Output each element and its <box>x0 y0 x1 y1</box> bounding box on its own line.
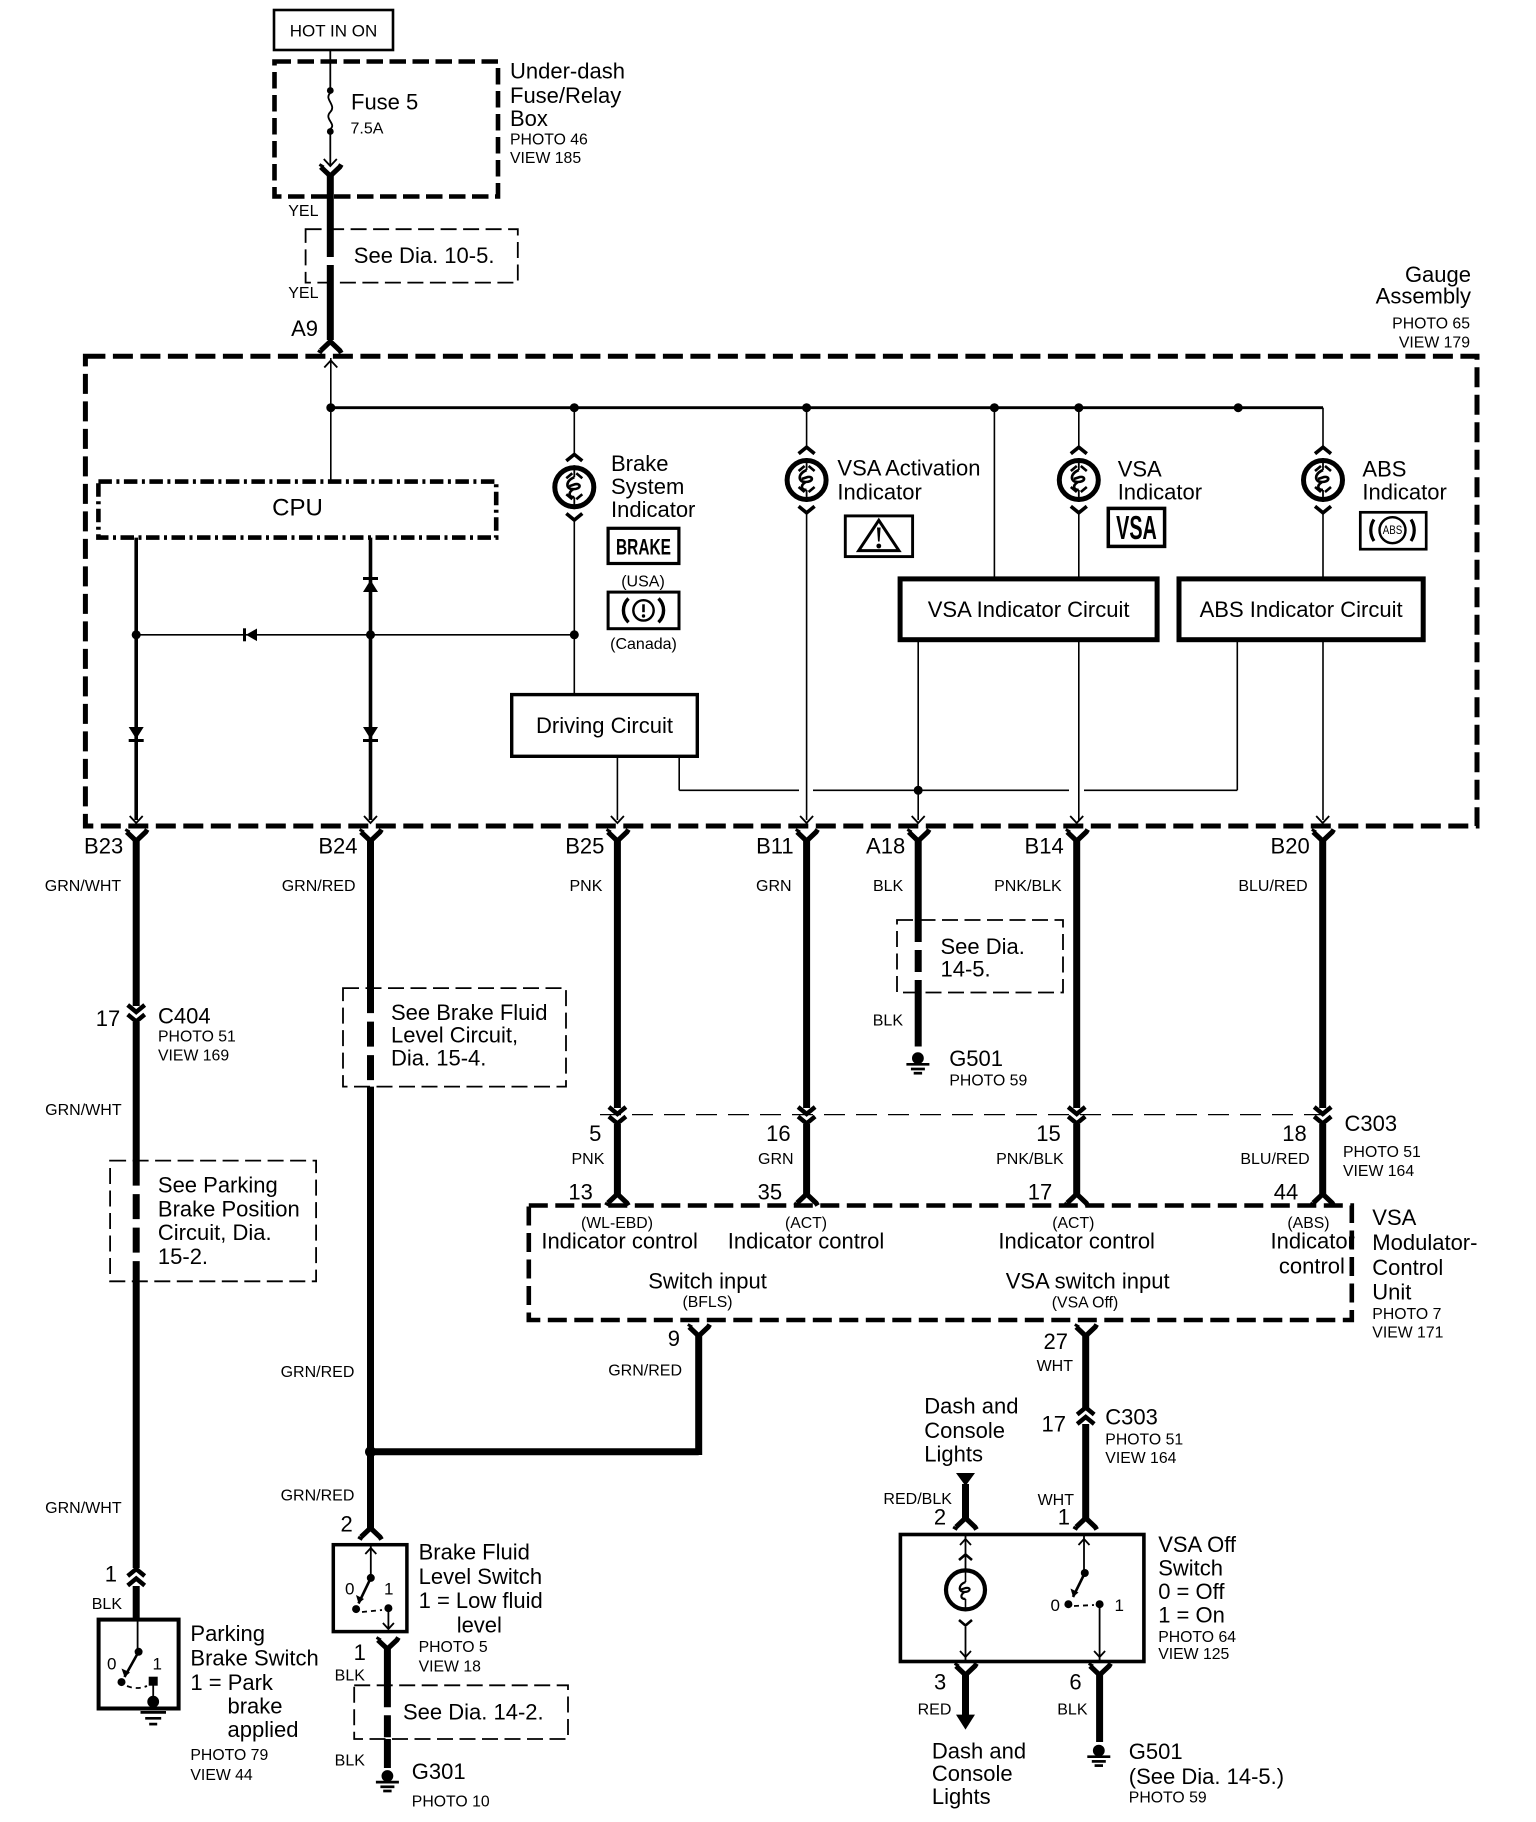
reference box See Parking Brake Position Circuit Dia. 15-2. <box>110 1161 316 1282</box>
connector A18 exit arrow <box>912 816 925 823</box>
power source label HOT IN ON <box>274 10 393 50</box>
label GRN/WHT (mid) <box>45 1102 122 1119</box>
under-dash fuse/relay box <box>275 62 499 197</box>
svg-text:(USA): (USA) <box>621 574 665 591</box>
lamp VSA Activation Indicator <box>787 447 826 513</box>
label Brake Fluid Level Switch <box>419 1539 543 1675</box>
svg-text:PNK/BLK: PNK/BLK <box>994 878 1062 895</box>
svg-text:Indicator: Indicator <box>611 497 695 522</box>
connector brake fluid switch pin 1 (output) <box>354 1638 399 1665</box>
svg-text:BRAKE: BRAKE <box>616 536 671 560</box>
svg-text:Dash and: Dash and <box>924 1393 1018 1418</box>
wire B25 PNK to C303 <box>614 841 621 1108</box>
connector B20 <box>1271 830 1334 859</box>
junction node A9/bus <box>326 403 335 412</box>
svg-text:B11: B11 <box>756 834 794 859</box>
icon ABS <box>1360 512 1426 549</box>
svg-text:Modulator-: Modulator- <box>1372 1230 1477 1255</box>
svg-text:PHOTO 65: PHOTO 65 <box>1392 316 1470 333</box>
label YEL (upper) <box>288 203 318 220</box>
wire B24 GRN/RED to reference box <box>367 841 374 988</box>
svg-text:1 = Park: 1 = Park <box>190 1670 274 1695</box>
svg-text:GRN/WHT: GRN/WHT <box>45 1500 122 1517</box>
label Gauge Assembly <box>1376 262 1471 352</box>
junction node bus/VSA indicator circuit <box>990 403 999 412</box>
svg-text:VIEW 18: VIEW 18 <box>419 1659 482 1676</box>
svg-text:PNK: PNK <box>571 1151 604 1168</box>
label wire colour GRN/RED (B24) <box>282 878 356 895</box>
connector B11 <box>756 830 818 859</box>
svg-text:Brake Position: Brake Position <box>158 1196 300 1221</box>
icon brake warning circle (Canada) <box>608 592 679 629</box>
svg-text:RED: RED <box>918 1702 952 1719</box>
svg-text:C303: C303 <box>1105 1405 1158 1430</box>
svg-text:Parking: Parking <box>190 1621 265 1646</box>
svg-text:VSA: VSA <box>1118 457 1162 482</box>
wire A9 entry to bus <box>324 358 337 408</box>
wire bus to CPU <box>330 408 332 482</box>
label wire colour PNK (B25) <box>569 878 602 895</box>
wire B23 below C404 <box>133 1022 140 1161</box>
wire VSA activation lamp to B11 exit <box>806 512 808 820</box>
svg-text:Indicator: Indicator <box>1271 1229 1355 1254</box>
svg-text:16: 16 <box>766 1121 790 1146</box>
svg-text:6: 6 <box>1069 1669 1081 1694</box>
svg-text:Switch input: Switch input <box>648 1268 767 1293</box>
switch VSA Off Switch box <box>900 1535 1144 1662</box>
junction node bus/VSA activation lamp <box>802 403 811 412</box>
wire bus to VSA activation lamp <box>806 408 808 449</box>
svg-text:BLU/RED: BLU/RED <box>1238 878 1307 895</box>
svg-text:15: 15 <box>1036 1121 1060 1146</box>
label Dash and Console Lights (top) <box>924 1393 1018 1466</box>
svg-text:Under-dash: Under-dash <box>510 58 625 83</box>
svg-text:VIEW 169: VIEW 169 <box>158 1047 229 1064</box>
svg-text:GRN/RED: GRN/RED <box>281 1364 355 1381</box>
svg-text:HOT IN ON: HOT IN ON <box>290 22 378 41</box>
svg-text:GRN/RED: GRN/RED <box>282 878 356 895</box>
svg-text:2: 2 <box>934 1505 946 1530</box>
svg-text:(Canada): (Canada) <box>610 636 677 653</box>
connector modulator pin 13 <box>568 1179 628 1205</box>
svg-text:44: 44 <box>1274 1179 1298 1204</box>
svg-text:PHOTO 59: PHOTO 59 <box>949 1073 1027 1090</box>
svg-text:Indicator control: Indicator control <box>728 1229 885 1254</box>
connector B14 exit arrow <box>1070 816 1083 823</box>
connector C303 pin 18 <box>1282 1107 1331 1146</box>
svg-text:17: 17 <box>1042 1412 1066 1437</box>
svg-text:GRN/WHT: GRN/WHT <box>45 878 122 895</box>
svg-text:Indicator control: Indicator control <box>541 1229 698 1254</box>
svg-text:VIEW 164: VIEW 164 <box>1105 1450 1176 1467</box>
svg-text:ABS Indicator Circuit: ABS Indicator Circuit <box>1200 597 1403 622</box>
wire VSA circuit box (B14 line) to exit <box>1078 640 1080 820</box>
svg-text:See Dia. 14-2.: See Dia. 14-2. <box>403 1700 544 1725</box>
svg-text:PHOTO 46: PHOTO 46 <box>510 132 588 149</box>
wire B24 below reference box to junction <box>367 1087 374 1452</box>
svg-text:A18: A18 <box>866 834 905 859</box>
wire A18 to ground <box>915 993 922 1047</box>
junction node A18 row <box>914 786 923 795</box>
svg-text:0 = Off: 0 = Off <box>1158 1579 1225 1604</box>
offpage arrow from dash and console lights <box>956 1473 975 1518</box>
wire WHT pin 27 to C303 <box>1082 1336 1089 1408</box>
svg-text:level: level <box>457 1613 502 1638</box>
svg-text:WHT: WHT <box>1037 1358 1074 1375</box>
icon BRAKE (USA) <box>608 528 679 563</box>
svg-text:C303: C303 <box>1345 1111 1398 1136</box>
wire VSA indicator circuit box bottom to A18 row <box>917 640 919 791</box>
svg-text:PHOTO 5: PHOTO 5 <box>419 1639 488 1656</box>
label VSA Activation Indicator <box>837 455 980 504</box>
CPU box <box>98 482 496 538</box>
label wire colour BLK (A18) <box>873 878 904 895</box>
label ABS Indicator <box>1362 457 1446 505</box>
label C303 PHOTO 51 VIEW 164 <box>1343 1111 1421 1180</box>
wire driving circuit to B25 exit <box>616 756 618 820</box>
wire VSA lamp to VSA indicator circuit box <box>1078 512 1080 579</box>
wire diode row horizontal <box>136 634 574 636</box>
svg-text:1: 1 <box>354 1640 366 1665</box>
svg-text:Indicator: Indicator <box>1362 480 1446 505</box>
svg-text:applied: applied <box>228 1717 299 1742</box>
svg-text:Indicator control: Indicator control <box>998 1229 1155 1254</box>
svg-text:Control: Control <box>1372 1255 1443 1280</box>
wire C303 to modulator pin 35 <box>803 1124 810 1194</box>
connector modulator pin 44 <box>1274 1179 1334 1205</box>
svg-text:VSA Activation: VSA Activation <box>837 455 980 480</box>
switch Brake Fluid Level Switch <box>333 1545 407 1632</box>
bus wire (power rail) <box>331 406 1323 409</box>
svg-text:VIEW 44: VIEW 44 <box>190 1767 253 1784</box>
svg-text:Dia. 15-4.: Dia. 15-4. <box>391 1046 486 1071</box>
wire CPU to B23 exit <box>134 538 138 820</box>
svg-text:Assembly: Assembly <box>1376 284 1471 309</box>
wire WHT C303 to VSA off switch <box>1082 1424 1089 1518</box>
svg-text:0: 0 <box>345 1580 354 1599</box>
svg-text:BLK: BLK <box>335 1752 366 1769</box>
label GRN/RED (pin 9) <box>608 1362 682 1379</box>
svg-text:G501: G501 <box>1129 1739 1183 1764</box>
connector brake fluid switch pin 2 <box>341 1512 382 1540</box>
connector C303 pin 5 <box>589 1107 626 1146</box>
svg-text:1: 1 <box>105 1562 117 1587</box>
svg-text:Indicator: Indicator <box>1118 480 1202 505</box>
wire brake lamp down to driving circuit <box>573 519 575 695</box>
svg-text:2: 2 <box>341 1512 353 1537</box>
svg-text:YEL: YEL <box>288 285 318 302</box>
wire B23 below reference box <box>133 1281 140 1568</box>
svg-text:VSA switch input: VSA switch input <box>1006 1268 1170 1293</box>
label WHT (lower) <box>1038 1492 1075 1509</box>
wire CPU to B24 exit <box>369 538 373 820</box>
svg-text:VSA Off: VSA Off <box>1158 1532 1237 1557</box>
connector VSA off switch pin 2 <box>934 1505 977 1530</box>
svg-text:C404: C404 <box>158 1004 211 1029</box>
connector VSA off switch pin 6 <box>1069 1664 1110 1695</box>
wire ABS indicator circuit box bottom to A18 row <box>1236 640 1238 791</box>
svg-text:PHOTO 59: PHOTO 59 <box>1129 1790 1207 1807</box>
label BLK (brake fluid, upper) <box>335 1667 366 1684</box>
junction node bus/ABS indicator circuit <box>1234 403 1243 412</box>
svg-text:VSA Indicator Circuit: VSA Indicator Circuit <box>928 597 1130 622</box>
label (ACT) Indicator control (B14) <box>998 1215 1155 1254</box>
svg-text:control: control <box>1279 1253 1345 1278</box>
connector VSA off switch pin 1 <box>1058 1505 1097 1530</box>
svg-text:1 = Low fluid: 1 = Low fluid <box>419 1588 543 1613</box>
wire C303 to modulator pin 44 <box>1319 1124 1326 1194</box>
reference box See Dia. 10-5. <box>306 229 518 282</box>
label (Canada) <box>610 636 677 653</box>
label Under-dash Fuse/Relay Box <box>510 58 625 166</box>
connector C303 pin 17 (WHT) <box>1042 1405 1184 1467</box>
connector C303 pin 15 <box>1036 1107 1085 1146</box>
connector A18 <box>866 830 929 859</box>
label RED <box>918 1702 952 1719</box>
svg-text:0: 0 <box>1051 1596 1060 1615</box>
svg-text:9: 9 <box>668 1326 680 1351</box>
diode D2 (up, B24 line) <box>363 579 378 593</box>
wire B11 GRN to C303 <box>803 841 810 1108</box>
connector B25 <box>565 830 628 859</box>
svg-text:5: 5 <box>589 1121 601 1146</box>
connector B20 exit arrow <box>1316 816 1329 823</box>
VSA modulator-control unit box <box>529 1206 1352 1321</box>
wire driving circuit right leg to A18 row <box>678 756 680 790</box>
label VSA switch input (VSA Off) <box>1006 1268 1170 1311</box>
icon VSA <box>1108 508 1164 546</box>
junction node bus/VSA lamp <box>1074 403 1083 412</box>
connector modulator pin 35 <box>758 1179 818 1205</box>
svg-text:BLK: BLK <box>335 1667 366 1684</box>
svg-text:VSA: VSA <box>1116 509 1157 547</box>
svg-text:See Brake Fluid: See Brake Fluid <box>391 1000 548 1025</box>
svg-text:VSA: VSA <box>1372 1205 1416 1230</box>
svg-text:GRN/RED: GRN/RED <box>281 1488 355 1505</box>
svg-text:1 = On: 1 = On <box>1158 1602 1225 1627</box>
svg-text:17: 17 <box>96 1006 120 1031</box>
svg-text:PNK: PNK <box>569 878 602 895</box>
label (ACT) Indicator control (B11) <box>728 1215 885 1254</box>
svg-text:VIEW 125: VIEW 125 <box>1158 1646 1229 1663</box>
svg-text:BLK: BLK <box>873 878 904 895</box>
svg-text:BLU/RED: BLU/RED <box>1240 1151 1309 1168</box>
svg-text:See Dia.: See Dia. <box>941 934 1025 959</box>
label GRN/RED (above junction) <box>281 1364 355 1381</box>
connector C404 pin 17 <box>96 1004 236 1065</box>
wire C303 to modulator pin 17 <box>1073 1124 1080 1194</box>
svg-text:PHOTO 51: PHOTO 51 <box>1343 1144 1421 1161</box>
wire B20 BLU/RED to C303 <box>1319 841 1326 1108</box>
svg-text:PNK/BLK: PNK/BLK <box>996 1151 1064 1168</box>
label wire colour GRN (B11) <box>756 878 792 895</box>
svg-text:YEL: YEL <box>288 203 318 220</box>
ground G301 <box>376 1759 490 1810</box>
svg-text:1: 1 <box>153 1655 162 1674</box>
wire from HOT IN ON into fuse box <box>329 50 331 90</box>
label YEL (lower) <box>288 285 318 302</box>
svg-text:Driving Circuit: Driving Circuit <box>536 713 673 738</box>
svg-text:G501: G501 <box>949 1046 1003 1071</box>
box Driving Circuit <box>512 695 698 757</box>
ground G501 (VSA off switch) <box>1087 1739 1284 1807</box>
svg-text:BLK: BLK <box>92 1596 123 1613</box>
svg-text:Brake Fluid: Brake Fluid <box>419 1539 530 1564</box>
box VSA Indicator Circuit <box>900 579 1157 640</box>
label Switch input (BFLS) <box>648 1268 767 1311</box>
svg-text:Level Switch: Level Switch <box>419 1564 543 1589</box>
svg-text:Unit: Unit <box>1372 1280 1411 1305</box>
wire fuse output with connector <box>321 132 342 177</box>
svg-text:Fuse 5: Fuse 5 <box>351 89 418 114</box>
junction node B24 / BFLS branch <box>365 1446 376 1457</box>
svg-text:ABS: ABS <box>1383 524 1403 537</box>
connector C303 separator line <box>600 1114 1330 1116</box>
svg-text:Box: Box <box>510 106 548 131</box>
svg-text:1: 1 <box>384 1580 393 1599</box>
svg-text:Console: Console <box>932 1761 1013 1786</box>
label WHT (upper) <box>1037 1358 1074 1375</box>
svg-text:BLK: BLK <box>1057 1702 1088 1719</box>
connector B14 <box>1025 830 1088 859</box>
svg-text:14-5.: 14-5. <box>941 957 991 982</box>
svg-text:GRN/WHT: GRN/WHT <box>45 1102 122 1119</box>
wire to ground G301 <box>384 1739 391 1768</box>
connector B24 exit arrow <box>364 816 377 823</box>
wire B23 GRN/WHT to C404 <box>133 841 140 1006</box>
svg-text:(VSA Off): (VSA Off) <box>1052 1295 1118 1312</box>
wire ABS lamp to ABS indicator circuit box <box>1322 512 1324 579</box>
wire A18 BLK to reference box <box>915 841 922 920</box>
svg-text:17: 17 <box>1028 1179 1052 1204</box>
label Brake System Indicator <box>611 451 695 522</box>
svg-text:See Parking: See Parking <box>158 1173 278 1198</box>
svg-text:Level Circuit,: Level Circuit, <box>391 1023 518 1048</box>
connector parking brake switch pin 1 <box>105 1562 145 1587</box>
svg-text:System: System <box>611 474 684 499</box>
svg-text:VIEW 185: VIEW 185 <box>510 150 581 167</box>
lamp (VSA off switch illumination) <box>946 1535 985 1662</box>
svg-text:27: 27 <box>1044 1329 1068 1354</box>
svg-text:1: 1 <box>1115 1596 1124 1615</box>
wire BLK to ground G501 <box>1096 1675 1103 1742</box>
svg-text:Lights: Lights <box>924 1442 983 1467</box>
wire brake fluid switch to reference box <box>384 1649 391 1685</box>
svg-text:A9: A9 <box>291 316 318 341</box>
connector B24 <box>318 830 381 859</box>
label wire colour BLU/RED (B20) <box>1238 878 1307 895</box>
wire B24 junction to brake fluid switch <box>367 1452 374 1528</box>
label (USA) <box>621 574 665 591</box>
connector modulator pin 9 <box>668 1325 710 1352</box>
label wire colour GRN/WHT (B23) <box>45 878 122 895</box>
svg-text:B20: B20 <box>1271 834 1310 859</box>
svg-text:B23: B23 <box>84 834 123 859</box>
lamp VSA Indicator <box>1059 447 1098 513</box>
svg-text:GRN: GRN <box>756 878 792 895</box>
svg-text:G301: G301 <box>412 1759 466 1784</box>
reference box See Brake Fluid Level Circuit Dia. 15-4. <box>343 988 566 1087</box>
label BLK (A18 lower) <box>873 1013 904 1030</box>
svg-text:Dash and: Dash and <box>932 1738 1026 1763</box>
box ABS Indicator Circuit <box>1179 579 1423 640</box>
wire C303 to modulator pin 13 <box>614 1124 621 1194</box>
label RED/BLK <box>883 1491 952 1508</box>
label BLK (B23) <box>92 1596 123 1613</box>
label VSA Modulator-Control Unit <box>1372 1205 1477 1342</box>
svg-text:Indicator: Indicator <box>837 479 921 504</box>
connector VSA off switch pin 3 <box>934 1664 977 1695</box>
svg-text:(BFLS): (BFLS) <box>682 1294 732 1311</box>
wire horizontal A18 row (with hops at B11,B14) <box>679 789 1237 791</box>
lamp ABS Indicator <box>1304 447 1343 513</box>
wire RED to dash and console lights (offpage) <box>956 1675 975 1730</box>
switch Parking Brake Switch <box>99 1620 179 1709</box>
label GRN/WHT (lower) <box>45 1500 122 1517</box>
wire bus to brake system lamp <box>573 408 575 456</box>
connector C303 pin 16 <box>766 1107 815 1146</box>
wire bus corner to ABS lamp <box>1322 408 1324 449</box>
diode D1 (pointing left) <box>245 628 258 641</box>
svg-text:See Dia. 10-5.: See Dia. 10-5. <box>354 243 495 268</box>
ground G501 (gauge assembly) <box>906 1046 1027 1090</box>
svg-text:Circuit, Dia.: Circuit, Dia. <box>158 1220 272 1245</box>
switch VSA off switch contact <box>1051 1535 1124 1662</box>
label BLK (brake fluid, lower) <box>335 1752 366 1769</box>
svg-text:VIEW 179: VIEW 179 <box>1399 334 1470 351</box>
svg-text:PHOTO 10: PHOTO 10 <box>412 1793 490 1810</box>
wire YEL from fuse box to gauge assembly (A9) <box>319 176 341 353</box>
connector A9 <box>291 316 318 341</box>
svg-text:Switch: Switch <box>1158 1556 1223 1581</box>
svg-text:GRN: GRN <box>758 1151 794 1168</box>
label Parking Brake Switch <box>190 1621 318 1784</box>
connector modulator pin 27 <box>1044 1325 1097 1355</box>
connector modulator pin 17 <box>1028 1179 1088 1205</box>
label wire colour PNK/BLK (pin 15) <box>996 1151 1064 1168</box>
label Dash and Console Lights (bottom) <box>932 1738 1026 1809</box>
label VSA Off Switch <box>1158 1532 1237 1663</box>
wire into parking brake switch <box>133 1586 140 1620</box>
label (WL-EBD) Indicator control <box>541 1215 698 1254</box>
svg-text:35: 35 <box>758 1179 782 1204</box>
svg-text:VIEW 171: VIEW 171 <box>1372 1325 1443 1342</box>
reference box See Dia. 14-5. <box>897 920 1063 993</box>
svg-text:GRN/RED: GRN/RED <box>608 1362 682 1379</box>
wire bus to VSA lamp <box>1078 408 1080 449</box>
svg-text:VIEW 164: VIEW 164 <box>1343 1163 1414 1180</box>
reference box See Dia. 14-2. <box>354 1685 568 1739</box>
wire A18 row down to A18 exit <box>917 790 919 820</box>
diode D4 (down, B24 line) <box>363 727 378 741</box>
wire ABS circuit box (B20 line) to exit <box>1322 640 1324 820</box>
wire bus to VSA indicator circuit box <box>993 408 995 579</box>
label GRN/RED (below junction) <box>281 1488 355 1505</box>
svg-text:ABS: ABS <box>1362 457 1406 482</box>
svg-text:0: 0 <box>107 1655 116 1674</box>
wire branch to modulator pin 9 <box>371 1336 699 1455</box>
svg-text:brake: brake <box>228 1693 283 1718</box>
wire B14 PNK/BLK to C303 <box>1073 841 1080 1108</box>
svg-text:13: 13 <box>568 1179 592 1204</box>
junction node diode row / lamp wire <box>570 630 579 639</box>
label wire colour BLU/RED (pin 18) <box>1240 1151 1309 1168</box>
connector B23 exit arrow <box>130 816 143 823</box>
junction node bus/brake lamp <box>570 403 579 412</box>
icon warning triangle <box>845 516 912 557</box>
svg-text:1: 1 <box>1058 1505 1070 1530</box>
svg-text:Brake Switch: Brake Switch <box>190 1646 318 1671</box>
